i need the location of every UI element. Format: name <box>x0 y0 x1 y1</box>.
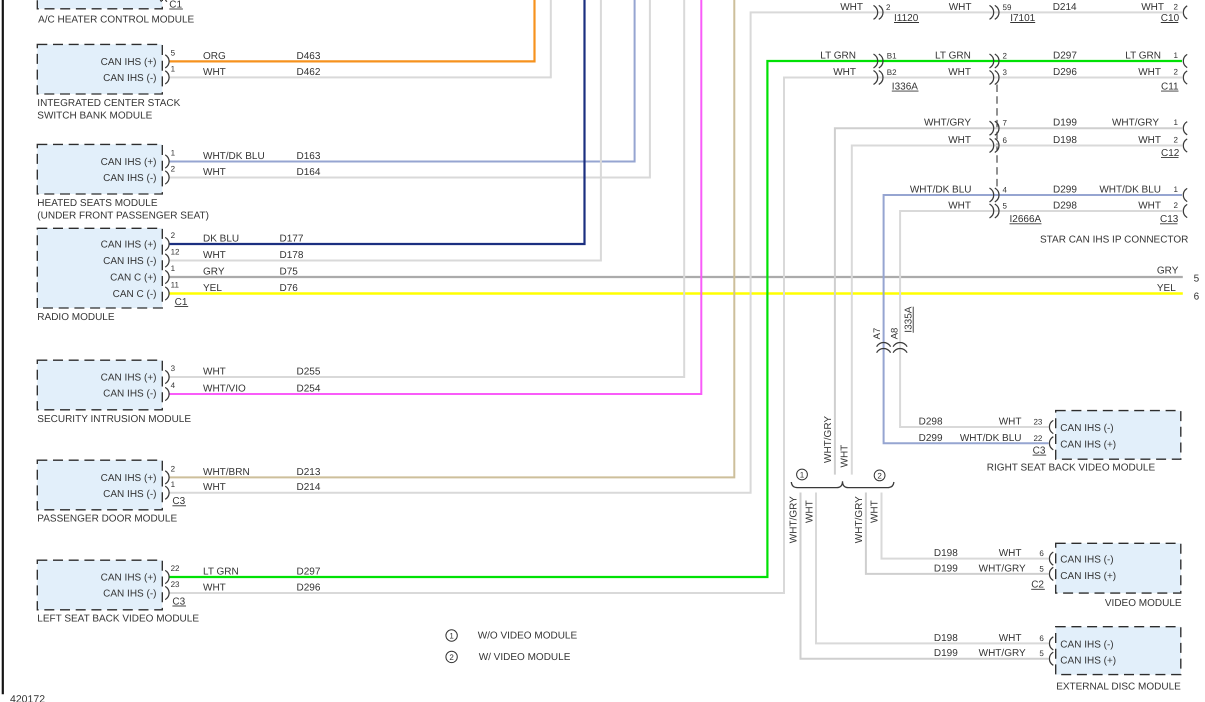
svg-text:D177: D177 <box>280 234 304 245</box>
svg-text:WHT: WHT <box>1138 67 1161 78</box>
svg-text:CAN IHS (+): CAN IHS (+) <box>101 473 157 484</box>
inline connector I1120 pin 2 <box>874 5 878 19</box>
svg-text:WHT: WHT <box>804 500 815 523</box>
svg-text:LT GRN: LT GRN <box>935 51 971 62</box>
svg-text:RADIO MODULE: RADIO MODULE <box>37 312 115 323</box>
pin 11 connector (radio) <box>165 287 169 300</box>
svg-text:2: 2 <box>1174 136 1179 145</box>
svg-text:W/O VIDEO MODULE: W/O VIDEO MODULE <box>478 631 578 642</box>
svg-text:D214: D214 <box>297 482 321 493</box>
svg-text:2: 2 <box>1174 68 1179 77</box>
svg-text:A8: A8 <box>889 328 900 340</box>
svg-text:2: 2 <box>886 3 891 12</box>
svg-text:CAN C (+): CAN C (+) <box>110 273 156 284</box>
svg-text:2: 2 <box>1003 52 1008 61</box>
inline connector I336A pin B1 <box>874 54 878 68</box>
svg-text:1: 1 <box>1174 118 1179 127</box>
star connector pin 5 <box>990 204 994 218</box>
svg-text:5: 5 <box>1003 202 1008 211</box>
svg-text:CAN IHS (-): CAN IHS (-) <box>103 489 156 500</box>
svg-text:CAN IHS (+): CAN IHS (+) <box>101 57 157 68</box>
svg-text:SWITCH BANK MODULE: SWITCH BANK MODULE <box>37 111 152 122</box>
pin 22 connector (LSBV) <box>165 570 169 583</box>
svg-text:HEATED SEATS MODULE: HEATED SEATS MODULE <box>37 198 158 209</box>
svg-text:3: 3 <box>1003 68 1008 77</box>
svg-text:2: 2 <box>171 231 176 240</box>
svg-text:VIDEO MODULE: VIDEO MODULE <box>1105 598 1182 609</box>
svg-text:WHT: WHT <box>948 67 971 78</box>
svg-text:LT GRN: LT GRN <box>820 51 856 62</box>
star connector pin 2 <box>990 54 994 68</box>
svg-text:2: 2 <box>1174 201 1179 210</box>
star connector dashed link line <box>996 85 998 189</box>
svg-text:D163: D163 <box>297 151 321 162</box>
wire D463 ORG from ICS pin 5 up to top edge <box>169 0 534 61</box>
wire D75 GRY from radio pin 1 to right edge <box>169 276 1183 278</box>
legend circle 1 <box>446 630 457 641</box>
svg-text:WHT: WHT <box>203 583 226 594</box>
svg-text:WHT: WHT <box>869 500 880 523</box>
svg-text:6: 6 <box>1003 136 1008 145</box>
wire D177 DK BLU from radio pin 2 up to top edge <box>169 0 584 244</box>
svg-text:D297: D297 <box>1053 51 1077 62</box>
svg-text:420172: 420172 <box>10 693 45 702</box>
svg-text:D198: D198 <box>934 548 958 559</box>
wire WHT/GRY (2) down to video module D199 row <box>866 493 1049 574</box>
pin 5 arc (video) <box>1049 567 1053 580</box>
note circle 1 (at splice) <box>797 469 808 480</box>
svg-text:WHT/DK BLU: WHT/DK BLU <box>910 185 972 196</box>
svg-text:WHT/VIO: WHT/VIO <box>203 384 246 395</box>
module A/C HEATER CONTROL MODULE (partial box) <box>37 0 162 9</box>
svg-text:1: 1 <box>171 149 176 158</box>
svg-text:2: 2 <box>449 653 454 662</box>
svg-text:CAN IHS (-): CAN IHS (-) <box>103 589 156 600</box>
svg-text:SECURITY INTRUSION MODULE: SECURITY INTRUSION MODULE <box>37 414 191 425</box>
svg-text:DK BLU: DK BLU <box>203 234 239 245</box>
wire WHT/GRY (1) down to external disc D199 row <box>801 493 1049 659</box>
pin 4 connector (security) <box>165 387 169 400</box>
svg-text:D214: D214 <box>1053 2 1077 13</box>
pin 6 arc (external disc) <box>1049 637 1053 650</box>
star connector pin 6 <box>990 139 994 153</box>
pin arc at C11 pin 1 <box>1183 54 1187 67</box>
pin 2 connector (radio) <box>165 237 169 250</box>
wire D462 WHT from ICS pin 1 up to top edge <box>169 0 551 77</box>
svg-text:D76: D76 <box>280 283 299 294</box>
svg-text:WHT: WHT <box>203 167 226 178</box>
star connector pin 7 <box>990 121 994 135</box>
svg-text:ORG: ORG <box>203 51 226 62</box>
svg-text:WHT: WHT <box>203 67 226 78</box>
svg-text:WHT/DK BLU: WHT/DK BLU <box>203 151 265 162</box>
svg-text:WHT: WHT <box>1141 2 1164 13</box>
svg-text:6: 6 <box>1039 634 1044 643</box>
svg-text:WHT: WHT <box>949 2 972 13</box>
svg-text:23: 23 <box>171 580 180 589</box>
svg-text:CAN IHS (-): CAN IHS (-) <box>103 73 156 84</box>
pin arc at C12 pin 2 <box>1183 139 1187 152</box>
svg-text:D462: D462 <box>297 67 321 78</box>
module INTEGRATED CENTER STACK SWITCH BANK MODULE box <box>37 44 162 94</box>
svg-text:WHT/GRY: WHT/GRY <box>789 496 800 543</box>
svg-text:2: 2 <box>1174 2 1179 11</box>
svg-text:22: 22 <box>1033 434 1042 443</box>
svg-text:D463: D463 <box>297 51 321 62</box>
svg-text:CAN IHS (+): CAN IHS (+) <box>1060 656 1116 667</box>
svg-text:WHT/GRY: WHT/GRY <box>979 563 1026 574</box>
svg-text:(UNDER FRONT PASSENGER SEAT): (UNDER FRONT PASSENGER SEAT) <box>37 211 209 222</box>
svg-text:YEL: YEL <box>1157 283 1176 294</box>
module HEATED SEATS MODULE box <box>37 144 162 194</box>
svg-text:WHT: WHT <box>1138 135 1161 146</box>
wire WHT (2) down to video module D198 row <box>882 493 1049 559</box>
svg-text:D198: D198 <box>934 633 958 644</box>
svg-text:D296: D296 <box>297 583 321 594</box>
wire D299 WHT/DK BLU from star pin 4 to C13 pin 1, down to RSBV module <box>884 195 1182 443</box>
svg-text:CAN IHS (-): CAN IHS (-) <box>103 256 156 267</box>
module EXTERNAL DISC MODULE box <box>1056 627 1181 675</box>
svg-text:WHT: WHT <box>203 482 226 493</box>
svg-text:CAN IHS (-): CAN IHS (-) <box>1060 555 1113 566</box>
note circle 2 (at splice) <box>874 470 885 481</box>
pin 1 connector (ICS) <box>165 71 169 84</box>
svg-text:B1: B1 <box>887 52 897 61</box>
svg-text:5: 5 <box>1039 649 1044 658</box>
svg-text:4: 4 <box>1003 186 1008 195</box>
svg-text:5: 5 <box>1039 564 1044 573</box>
svg-text:CAN IHS (+): CAN IHS (+) <box>1060 439 1116 450</box>
page left border line <box>2 0 4 694</box>
svg-text:D198: D198 <box>1053 135 1077 146</box>
svg-text:CAN IHS (-): CAN IHS (-) <box>103 389 156 400</box>
pin arc at C12 pin 1 <box>1183 122 1187 135</box>
pin 1 connector (heated seats) <box>165 155 169 168</box>
svg-text:1: 1 <box>449 632 454 641</box>
legend circle 2 <box>446 651 457 662</box>
svg-text:CAN IHS (-): CAN IHS (-) <box>1060 639 1113 650</box>
svg-text:WHT: WHT <box>840 2 863 13</box>
module VIDEO MODULE box <box>1056 543 1181 593</box>
svg-text:D255: D255 <box>297 367 321 378</box>
svg-text:STAR CAN IHS IP CONNECTOR: STAR CAN IHS IP CONNECTOR <box>1040 235 1188 246</box>
svg-text:WHT/GRY: WHT/GRY <box>823 416 834 463</box>
svg-text:6: 6 <box>1039 549 1044 558</box>
svg-text:B2: B2 <box>887 68 897 77</box>
connector label I335A <box>904 306 915 332</box>
svg-text:WHT: WHT <box>999 548 1022 559</box>
svg-text:2: 2 <box>171 465 176 474</box>
module RIGHT SEAT BACK VIDEO MODULE box <box>1056 411 1181 460</box>
wire WHT (1) down to external disc D198 row <box>816 493 1049 644</box>
svg-text:1: 1 <box>171 65 176 74</box>
wire D296 WHT from LSBV pin 23 up and right to C11 <box>169 78 1182 594</box>
wire D163 WHT/DK BLU from heated seats pin 1 up to top edge <box>169 0 634 162</box>
svg-text:1: 1 <box>171 480 176 489</box>
svg-text:YEL: YEL <box>203 283 222 294</box>
svg-text:D298: D298 <box>919 417 943 428</box>
svg-text:A/C HEATER CONTROL MODULE: A/C HEATER CONTROL MODULE <box>38 14 194 25</box>
wire D199 WHT/GRY from star pin 7 to C12 pin 1, down to splice group <box>835 128 1182 474</box>
svg-text:LEFT SEAT BACK VIDEO MODULE: LEFT SEAT BACK VIDEO MODULE <box>37 614 199 625</box>
svg-text:D299: D299 <box>919 433 943 444</box>
svg-text:D213: D213 <box>297 467 321 478</box>
svg-text:D297: D297 <box>297 567 321 578</box>
svg-text:WHT: WHT <box>833 67 856 78</box>
wire D76 YEL from radio pin 11 to right edge <box>169 292 1183 294</box>
svg-text:RIGHT SEAT BACK VIDEO MODULE: RIGHT SEAT BACK VIDEO MODULE <box>987 463 1156 474</box>
inline connector I7101 pin 59 <box>990 5 994 19</box>
svg-text:WHT/GRY: WHT/GRY <box>924 118 971 129</box>
svg-text:CAN IHS (+): CAN IHS (+) <box>101 573 157 584</box>
module SECURITY INTRUSION MODULE box <box>37 360 162 410</box>
svg-text:5: 5 <box>1194 273 1200 284</box>
wire D298 WHT from star pin 5 to C13 pin 2, down to RSBV module <box>900 211 1182 427</box>
svg-text:D178: D178 <box>280 250 304 261</box>
svg-text:CAN IHS (-): CAN IHS (-) <box>1060 423 1113 434</box>
svg-text:6: 6 <box>1194 292 1200 303</box>
svg-text:CAN IHS (+): CAN IHS (+) <box>101 240 157 251</box>
svg-text:PASSENGER DOOR MODULE: PASSENGER DOOR MODULE <box>37 514 177 525</box>
svg-text:LT GRN: LT GRN <box>1125 51 1161 62</box>
svg-text:WHT: WHT <box>1138 201 1161 212</box>
svg-text:GRY: GRY <box>203 267 225 278</box>
svg-text:1: 1 <box>800 471 805 480</box>
pin 1 connector (door) <box>165 486 169 499</box>
svg-text:CAN IHS (+): CAN IHS (+) <box>1060 571 1116 582</box>
inline connector I336A pin B2 <box>874 71 878 85</box>
wire D254 WHT/VIO from security pin 4 up to top edge <box>169 0 701 394</box>
svg-text:D296: D296 <box>1053 67 1077 78</box>
svg-text:WHT/GRY: WHT/GRY <box>1112 118 1159 129</box>
svg-text:11: 11 <box>171 281 180 290</box>
wire D214 WHT from door pin 1 up and right to connector C10 <box>169 12 1182 492</box>
inline connector I335A pin A7 <box>877 343 891 347</box>
svg-text:CAN IHS (-): CAN IHS (-) <box>103 173 156 184</box>
svg-text:CAN IHS (+): CAN IHS (+) <box>101 373 157 384</box>
svg-text:1: 1 <box>171 264 176 273</box>
pin 2 connector (heated seats) <box>165 171 169 184</box>
module RADIO MODULE box <box>37 228 162 308</box>
pin arc at C11 pin 2 <box>1183 71 1187 84</box>
svg-text:D298: D298 <box>1053 201 1077 212</box>
star connector pin 3 <box>990 71 994 85</box>
inline connector I335A pin A8 <box>893 343 907 347</box>
pin 5 arc (external disc) <box>1049 652 1053 665</box>
svg-text:WHT: WHT <box>840 445 851 468</box>
wire D198 WHT from star pin 6 to C12 pin 2, down to splice group <box>852 146 1182 475</box>
pin 2 connector (door) <box>165 471 169 484</box>
pin 12 connector (radio) <box>165 254 169 267</box>
module PASSENGER DOOR MODULE box <box>37 460 162 510</box>
svg-text:D299: D299 <box>1053 185 1077 196</box>
pin arc remnant at top edge <box>160 0 167 2</box>
pin 6 arc (video) <box>1049 552 1053 565</box>
svg-text:CAN IHS (+): CAN IHS (+) <box>101 157 157 168</box>
svg-text:WHT: WHT <box>999 633 1022 644</box>
svg-text:WHT: WHT <box>203 250 226 261</box>
svg-text:3: 3 <box>171 364 176 373</box>
module LEFT SEAT BACK VIDEO MODULE box <box>37 560 162 610</box>
svg-text:WHT/DK BLU: WHT/DK BLU <box>960 433 1022 444</box>
wire D213 WHT/BRN from door pin 2 up to top edge <box>169 0 734 477</box>
svg-text:4: 4 <box>171 381 176 390</box>
svg-text:D75: D75 <box>280 267 299 278</box>
svg-text:WHT: WHT <box>999 417 1022 428</box>
splice brace <box>791 481 894 487</box>
svg-text:EXTERNAL DISC MODULE: EXTERNAL DISC MODULE <box>1056 681 1181 692</box>
svg-text:D199: D199 <box>1053 118 1077 129</box>
svg-text:GRY: GRY <box>1157 265 1179 276</box>
wire D255 WHT from security pin 3 up to top edge <box>169 0 684 377</box>
wire D164 WHT from heated seats pin 2 up to top edge <box>169 0 650 178</box>
pin 22 arc (RSBV) <box>1049 437 1053 450</box>
svg-text:2: 2 <box>877 472 882 481</box>
svg-text:INTEGRATED CENTER STACK: INTEGRATED CENTER STACK <box>37 98 180 109</box>
wire D178 WHT from radio pin 12 up to top edge <box>169 0 601 261</box>
svg-text:D199: D199 <box>934 563 958 574</box>
svg-text:5: 5 <box>171 49 176 58</box>
pin 5 connector (ICS) <box>165 55 169 68</box>
svg-text:CAN C (-): CAN C (-) <box>113 289 157 300</box>
pin 1 connector (radio) <box>165 270 169 283</box>
wire D297 LT GRN from LSBV pin 22 up and right to C11 <box>169 61 1182 577</box>
svg-text:WHT/GRY: WHT/GRY <box>854 496 865 543</box>
pin 3 connector (security) <box>165 370 169 383</box>
pin 23 connector (LSBV) <box>165 586 169 599</box>
svg-text:7: 7 <box>1003 119 1008 128</box>
svg-text:WHT: WHT <box>203 367 226 378</box>
svg-text:LT GRN: LT GRN <box>203 567 239 578</box>
svg-text:2: 2 <box>171 165 176 174</box>
svg-text:WHT/GRY: WHT/GRY <box>979 648 1026 659</box>
star connector pin 4 <box>990 188 994 202</box>
pin arc at C13 pin 2 <box>1183 204 1187 217</box>
pin 23 arc (RSBV) <box>1049 420 1053 433</box>
svg-text:23: 23 <box>1033 418 1042 427</box>
svg-text:D199: D199 <box>934 648 958 659</box>
svg-text:D164: D164 <box>297 167 321 178</box>
svg-text:1: 1 <box>1174 185 1179 194</box>
svg-text:D254: D254 <box>297 384 321 395</box>
svg-text:W/ VIDEO MODULE: W/ VIDEO MODULE <box>479 652 571 663</box>
svg-text:22: 22 <box>171 564 180 573</box>
svg-text:WHT: WHT <box>948 201 971 212</box>
svg-text:WHT/BRN: WHT/BRN <box>203 467 250 478</box>
svg-text:1: 1 <box>1174 51 1179 60</box>
svg-text:WHT: WHT <box>948 135 971 146</box>
svg-text:WHT/DK BLU: WHT/DK BLU <box>1099 185 1161 196</box>
pin arc at C10 <box>1183 6 1187 19</box>
svg-text:59: 59 <box>1003 3 1012 12</box>
svg-text:A7: A7 <box>872 328 883 340</box>
svg-text:12: 12 <box>171 248 180 257</box>
pin arc at C13 pin 1 <box>1183 188 1187 201</box>
